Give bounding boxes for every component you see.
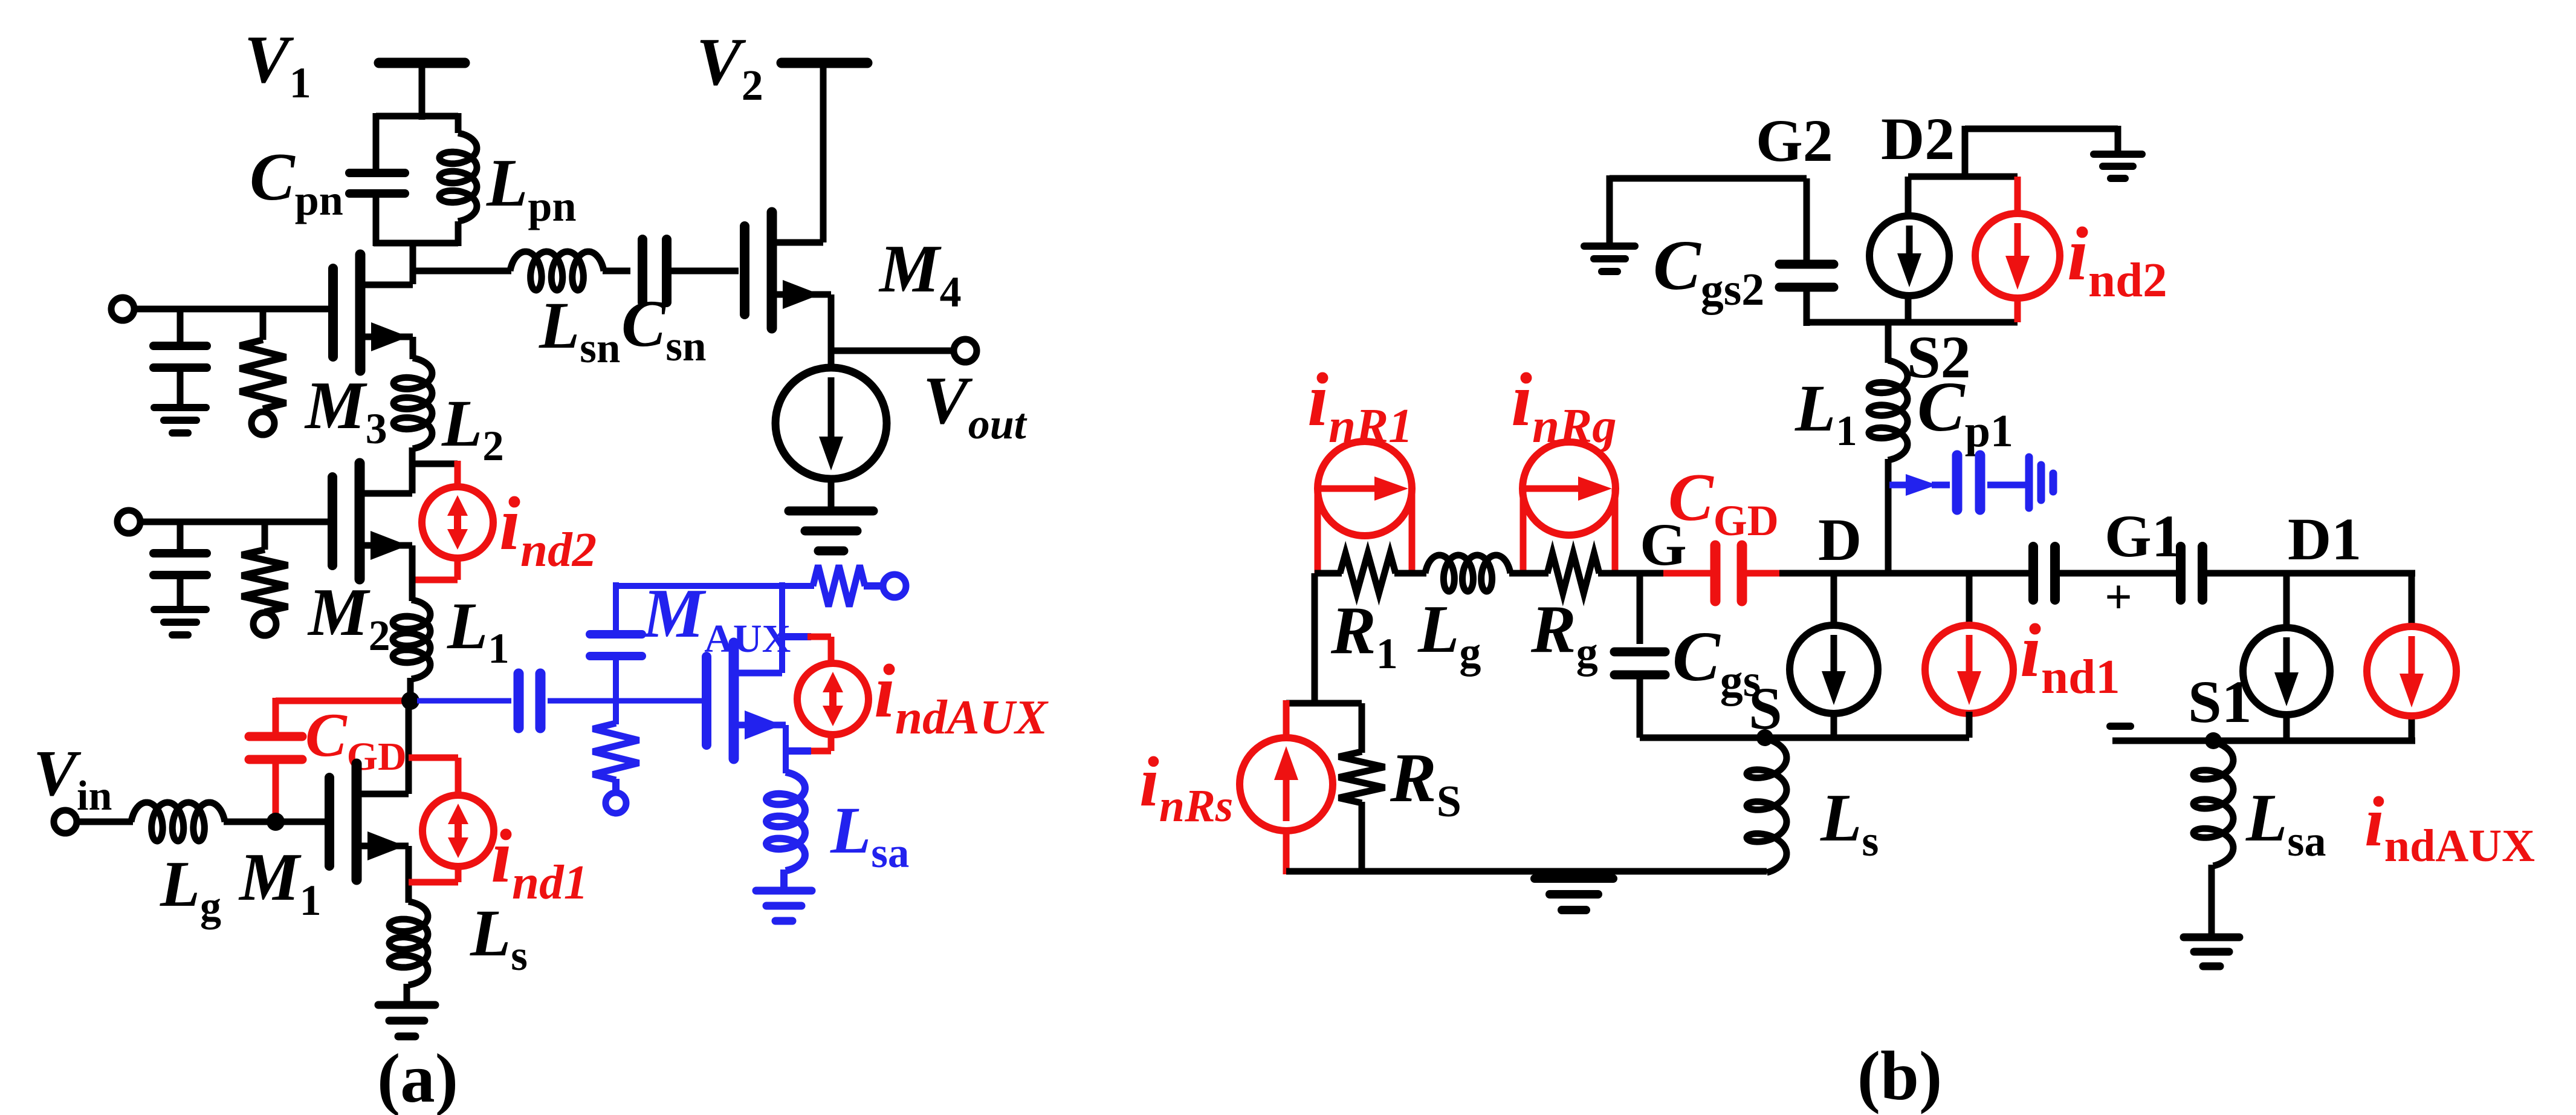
current source gm1: [1790, 625, 1878, 714]
wire M3 source lead: [360, 334, 413, 340]
wire gm1 lower stub: [1831, 712, 1837, 738]
node M1 gate: [267, 813, 285, 831]
capacitor CGD (b): [1710, 545, 1721, 601]
wire gmA upper stub: [2283, 573, 2290, 629]
wire RS upper stub: [1359, 703, 1365, 753]
svg-text:G1: G1: [2105, 502, 2182, 570]
capacitor M2 bias: [154, 549, 207, 557]
resistor R1: [1340, 553, 1396, 593]
wire Lsa to ground: [780, 870, 788, 889]
wire rail red CGD left: [1663, 570, 1710, 577]
wire M3 bias res stub: [260, 309, 267, 340]
wire M2 bias cap to gnd: [177, 575, 184, 608]
wire G2 right stub: [1804, 178, 1810, 267]
ground Lsa (a): [756, 887, 812, 895]
wire gm1 upper stub: [1831, 573, 1837, 627]
wire Csn to M4 gate: [667, 268, 739, 275]
wire M1 drain lead: [357, 791, 409, 798]
capacitor CGD (a): [249, 732, 302, 741]
transistor M1: [325, 778, 334, 866]
wire box2 left lower: [1905, 294, 1912, 322]
inductor L1 (a): [393, 600, 430, 679]
node S: [1756, 729, 1773, 746]
wire inRs box top: [1286, 700, 1362, 707]
wire indAUX bottom stub: [828, 733, 835, 751]
wire M4 source lead: [772, 291, 831, 298]
wire G2 left stub: [1607, 175, 1613, 244]
power rail V1 bar: [379, 58, 465, 68]
wire Vout lead: [831, 348, 954, 354]
resistor M2 bias: [242, 550, 288, 612]
wire M2 gate lead: [140, 519, 328, 525]
wire inRg left bracket: [1520, 489, 1527, 573]
wire box2 top: [1908, 174, 2018, 180]
wire CGD lower stub: [273, 759, 279, 825]
current source M4 bias: [775, 368, 887, 479]
wire CGD top: [276, 698, 407, 704]
wire drain M3 to Lsn: [413, 268, 511, 275]
terminal M3 gate: [111, 297, 134, 320]
current source inRs: [1240, 738, 1333, 831]
wire M2 drain lead: [360, 490, 412, 497]
wire Ls to ground: [404, 984, 410, 1003]
wire Vin to Lg: [77, 819, 133, 825]
wire M1 drain vertical: [406, 701, 412, 794]
wire blue cap to gate rail: [548, 698, 702, 704]
wire blue res stub: [613, 701, 619, 724]
inductor Lg (a): [131, 802, 225, 841]
wire box2 right upper: [2015, 177, 2021, 214]
transistor M3: [328, 268, 338, 357]
wire M3 drain lead: [360, 282, 413, 288]
wire Lsa-b to ground: [2209, 865, 2215, 935]
wire S1 rail: [2112, 738, 2415, 744]
node drain M1: [401, 692, 419, 710]
current source ind2 (b): [1975, 213, 2060, 298]
capacitor blue bias: [590, 630, 642, 639]
wire box2 bottom: [1807, 319, 2018, 326]
power rail V2 bar: [782, 58, 867, 68]
wire M3 gate lead: [134, 306, 328, 313]
current source ind1: [422, 795, 494, 866]
capacitor Cpn: [349, 169, 405, 177]
wire S rail: [1640, 735, 1969, 741]
wire tank bottom: [374, 240, 458, 247]
wire tank left upper: [373, 113, 380, 172]
wire left leg vertical: [1312, 573, 1318, 706]
transistor M2: [328, 477, 337, 565]
current source gm2: [1869, 216, 1949, 296]
wire ind1 lower stub: [1966, 712, 1973, 738]
current source indAUX (b): [2367, 626, 2456, 716]
wire M4 drain lead: [772, 239, 823, 246]
current source inRg: [1523, 442, 1616, 535]
wire M3 source to L2: [410, 337, 416, 359]
terminal M3 bias: [251, 412, 274, 435]
current source ind2: [422, 487, 493, 558]
wire inRg right bracket: [1612, 489, 1619, 573]
wire M2 bias cap stub: [177, 522, 184, 553]
wire gate node to M1: [276, 819, 325, 825]
resistor blue bias top: [813, 565, 865, 606]
capacitor Csn: [638, 239, 647, 302]
wire blue node to cap: [417, 698, 511, 704]
terminal blue bias lower: [606, 793, 626, 813]
wire L1b to rail: [1885, 459, 1892, 573]
terminal M2 bias: [253, 613, 276, 636]
wire M2 source to L1: [409, 545, 416, 601]
current source inR1: [1318, 441, 1412, 536]
capacitor M3 bias: [154, 342, 207, 350]
capacitor D1: [2176, 547, 2186, 600]
wire indAUX top stub: [782, 633, 811, 640]
wire CGD upper stub: [273, 698, 279, 736]
ground M4 bias: [789, 507, 873, 516]
capacitor G1: [2028, 547, 2038, 600]
wire ind2 bottom stub: [455, 557, 461, 580]
wire M1 source vertical: [406, 846, 412, 903]
capacitor Cp1: [1952, 455, 1963, 510]
wire V1 stem: [419, 63, 426, 120]
wire blue bias vertical upper: [613, 582, 619, 634]
ground bottom (b): [1535, 874, 1613, 883]
wire Cgs upper stub: [1637, 573, 1643, 644]
current source indAUX: [797, 663, 869, 735]
wire ind1 bottom stub: [455, 865, 462, 882]
wire box2 right lower: [2015, 297, 2021, 322]
inductor Lg (b): [1425, 555, 1510, 591]
wire blue top rail: [616, 583, 814, 589]
terminal Vout: [954, 339, 977, 362]
ground D2: [2094, 151, 2142, 158]
inductor Ls (a): [389, 902, 428, 985]
wire rail red CGD right: [1746, 570, 1783, 577]
wire blue res to terminal: [612, 779, 620, 792]
wire S2 stub: [1885, 322, 1892, 363]
wire inR1 right bracket: [1409, 489, 1416, 573]
wire D2 top: [1965, 126, 2118, 132]
wire box2 left upper: [1905, 177, 1912, 218]
wire V2 stem: [820, 63, 827, 242]
wire M1 source lead: [357, 843, 409, 850]
wire rail Lg-Rg: [1509, 570, 1549, 577]
svg-text:D: D: [1818, 506, 1862, 573]
wire rail CGD-D: [1779, 570, 2033, 577]
inductor Lsn: [510, 252, 604, 290]
wire rail left segment: [1315, 570, 1342, 577]
wire G2 horizontal: [1610, 175, 1807, 182]
inductor Lpn: [439, 133, 477, 221]
wire inRs lower stub: [1283, 830, 1290, 874]
wire M4 CS to ground: [828, 479, 835, 509]
ground Ls (a): [378, 1001, 435, 1009]
wire M3 bias cap to gnd: [177, 368, 184, 406]
label minus: [2110, 723, 2131, 730]
terminal M2 gate: [117, 510, 140, 533]
wire rail G1-D1: [2055, 570, 2184, 577]
wire Cp1 lead: [1932, 482, 1950, 489]
wire Lsn to Csn: [603, 268, 630, 275]
wire D2 gnd stub: [2115, 126, 2121, 152]
wire node L2-M2 to ind2: [412, 461, 458, 467]
wire rail D1 right: [2202, 570, 2415, 577]
terminal blue bias top: [883, 574, 906, 597]
wire blue bias vertical lower: [613, 660, 619, 701]
wire gmA lower stub: [2283, 713, 2290, 741]
inductor Lsa (b): [2193, 742, 2233, 866]
wire ind1 upper stub: [1966, 573, 1973, 627]
wire M2 bias res stub: [262, 522, 268, 550]
wire bottom rail: [1286, 868, 1767, 875]
capacitor blue coupling: [514, 674, 524, 728]
wire blue to terminal: [864, 582, 884, 590]
wire RS lower stub: [1359, 802, 1365, 871]
transistor MAUX: [702, 657, 711, 745]
terminal Vin: [54, 810, 77, 833]
capacitor Cgs: [1614, 648, 1665, 657]
svg-text:D1: D1: [2288, 505, 2361, 573]
svg-text:(a): (a): [377, 1040, 458, 1115]
svg-text:D2: D2: [1881, 105, 1955, 172]
wire M3 bias cap stub: [177, 309, 184, 342]
transistor M4: [740, 226, 749, 314]
capacitor Cgs2: [1779, 260, 1834, 269]
ground M2 bias: [154, 606, 206, 613]
wire L2 to M2 drain: [409, 447, 416, 493]
wire inR1 left bracket: [1315, 489, 1321, 573]
wire Cp1 arrow: [1889, 482, 1911, 489]
resistor M3 bias: [240, 340, 286, 409]
inductor Lsa (a): [766, 772, 805, 871]
ground Cp1 sideways: [2025, 457, 2033, 508]
svg-text:G2: G2: [1756, 107, 1833, 174]
wire rail R1-Lg: [1394, 570, 1426, 577]
wire MAUX drain vertical: [779, 582, 785, 673]
ground G2: [1584, 242, 1635, 250]
wire M2 source lead: [360, 542, 412, 549]
wire tank right lower: [455, 221, 462, 246]
wire MAUX drain lead: [734, 670, 782, 677]
wire rail Rg-G: [1598, 570, 1668, 577]
svg-text:(b): (b): [1857, 1038, 1943, 1114]
wire inRs upper stub: [1283, 700, 1290, 739]
resistor Rg: [1547, 553, 1599, 593]
wire Cp1 to gnd: [1987, 482, 2026, 489]
inductor L2: [393, 358, 432, 449]
wire M4 source vertical: [828, 294, 835, 370]
current source ind1 (b): [1925, 625, 2013, 714]
wire tank right upper: [455, 113, 462, 133]
wire Cgs2 to rail: [1804, 287, 1810, 326]
resistor RS: [1339, 752, 1385, 803]
wire MAUX source lead: [734, 722, 786, 729]
wire tank to M3 drain: [410, 243, 416, 284]
wire Lg to gate node: [224, 819, 276, 825]
wire right box right: [2409, 570, 2415, 629]
wire L1 to node: [407, 678, 414, 703]
svg-text:+: +: [2105, 571, 2132, 624]
wire ind1 top stub: [409, 755, 458, 761]
inductor L1 (b): [1869, 360, 1908, 460]
ground M3 bias: [154, 404, 206, 411]
ground Lsa (b): [2184, 934, 2239, 941]
wire MAUX source vertical: [783, 725, 789, 773]
wire Cgs lower stub: [1637, 674, 1643, 738]
node S1: [2205, 732, 2222, 749]
wire tank left lower: [373, 194, 380, 246]
current source gmA: [2243, 628, 2330, 715]
inductor Ls (b): [1747, 739, 1787, 873]
resistor blue bias lower: [593, 723, 639, 780]
wire tank top: [376, 113, 458, 120]
